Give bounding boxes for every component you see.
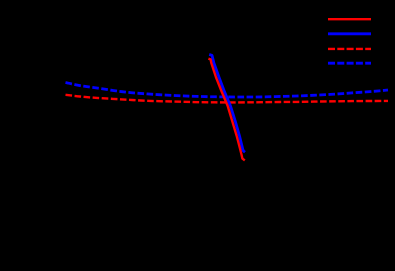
legend sample red solid [328, 18, 371, 20]
curve mu-A dashed red [66, 95, 389, 103]
curve mu-B dashed blue [66, 83, 389, 98]
legend sample red dashed [328, 48, 371, 50]
legend sample blue solid [328, 32, 371, 35]
curve steep solid red [208, 59, 244, 161]
legend sample blue dashed [328, 62, 371, 65]
curve steep solid blue [209, 55, 245, 153]
